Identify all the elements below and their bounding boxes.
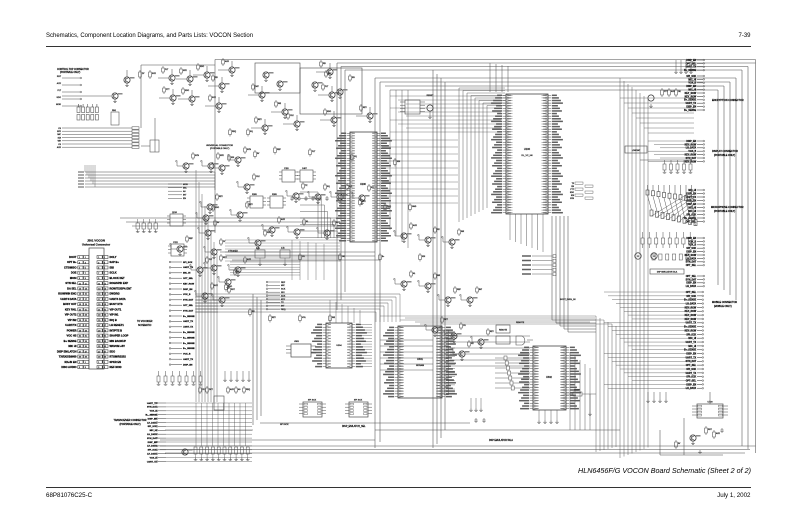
svg-text:VOX_B: VOX_B [183, 354, 191, 356]
svg-text:MIC: MIC [281, 285, 285, 287]
svg-text:MIC: MIC [183, 187, 187, 189]
svg-text:DL_VC_H4: DL_VC_H4 [521, 155, 533, 157]
svg-text:DISP_EN: DISP_EN [686, 86, 696, 88]
svg-text:OPT_SEL: OPT_SEL [686, 380, 697, 382]
svg-text:(PORTABLE ONLY): (PORTABLE ONLY) [714, 154, 735, 157]
svg-text:B+_SENSE: B+_SENSE [183, 348, 195, 350]
svg-text:TX: TX [572, 183, 575, 185]
svg-text:SBI: SBI [110, 265, 115, 269]
svg-text:R205: R205 [272, 194, 278, 196]
svg-text:TX: TX [305, 185, 308, 187]
svg-text:AUX: AUX [281, 218, 286, 221]
svg-text:SDO: SDO [56, 97, 61, 99]
svg-text:BLOCK DET: BLOCK DET [110, 276, 126, 280]
svg-text:KEY: KEY [363, 107, 368, 109]
svg-text:DA SEL: DA SEL [67, 286, 77, 290]
svg-text:UART_TX: UART_TX [183, 358, 194, 361]
svg-text:TRANSCEIVER CONNECTOR: TRANSCEIVER CONNECTOR [113, 419, 146, 422]
svg-text:MOBILE CONNECTOR: MOBILE CONNECTOR [712, 301, 737, 304]
svg-text:UART_TX: UART_TX [686, 341, 697, 344]
svg-text:RST: RST [57, 76, 62, 78]
svg-text:B+ SENSE: B+ SENSE [64, 339, 77, 343]
svg-text:LH_DATA: LH_DATA [686, 257, 697, 260]
svg-text:DISP_EN: DISP_EN [183, 289, 193, 291]
svg-text:KEY FAIL: KEY FAIL [65, 307, 77, 311]
svg-text:A1: A1 [413, 272, 415, 275]
svg-text:SPI SCK: SPI SCK [280, 424, 289, 426]
svg-text:RX+IN EN: RX+IN EN [64, 360, 76, 364]
svg-text:LH_DATA: LH_DATA [686, 147, 697, 150]
svg-text:UART_TX: UART_TX [183, 266, 194, 269]
svg-text:AUX: AUX [225, 60, 230, 63]
svg-text:EN: EN [352, 77, 355, 79]
svg-text:D7: D7 [142, 73, 144, 75]
svg-text:ACK: ACK [214, 284, 219, 287]
svg-text:OPT_SEL: OPT_SEL [686, 265, 697, 267]
svg-text:ROG/SPID EXP: ROG/SPID EXP [110, 281, 129, 285]
svg-text:CLK: CLK [256, 176, 260, 178]
svg-text:SDI: SDI [397, 161, 401, 163]
svg-text:RD: RD [215, 77, 218, 79]
svg-text:ROW/WIN ENC: ROW/WIN ENC [58, 292, 76, 296]
svg-text:Universal Connector: Universal Connector [82, 243, 111, 247]
svg-text:FLT: FLT [57, 90, 61, 92]
svg-text:MIC_HI: MIC_HI [688, 90, 696, 92]
svg-text:UART_TX: UART_TX [686, 372, 697, 375]
svg-text:DSP EMULATOR 50LA: DSP EMULATOR 50LA [489, 439, 513, 442]
svg-text:(PORTABLE ONLY): (PORTABLE ONLY) [60, 71, 81, 74]
svg-text:SYN: SYN [570, 198, 575, 200]
svg-text:R205: R205 [252, 194, 258, 196]
svg-text:B+_SENSE: B+_SENSE [183, 337, 195, 339]
svg-text:SYN_DAT: SYN_DAT [686, 278, 697, 281]
svg-text:(PORTABLE ONLY): (PORTABLE ONLY) [714, 210, 735, 213]
svg-text:TX/RX/SB9600: TX/RX/SB9600 [59, 355, 77, 359]
svg-text:VIP IN2: VIP IN2 [68, 318, 77, 322]
svg-text:SHAPER LOOP: SHAPER LOOP [110, 334, 129, 338]
svg-text:FLT: FLT [325, 86, 329, 88]
svg-text:VIP OUT2: VIP OUT2 [65, 313, 77, 317]
svg-text:KEY_ROW: KEY_ROW [685, 93, 697, 95]
svg-text:B+: B+ [382, 256, 385, 258]
svg-text:DISP_EN: DISP_EN [686, 60, 696, 62]
svg-text:VOL: VOL [302, 317, 306, 319]
svg-text:SPK: SPK [183, 70, 188, 72]
svg-text:B+_SENSE: B+_SENSE [684, 110, 697, 112]
svg-text:B+_SENSE: B+_SENSE [183, 316, 195, 318]
svg-text:A0: A0 [183, 190, 186, 193]
svg-text:SDO: SDO [327, 111, 332, 113]
svg-text:DSP SIMULATOR 50LA: DSP SIMULATOR 50LA [657, 271, 678, 274]
svg-text:UART_TX: UART_TX [686, 322, 697, 325]
svg-text:SPI_SCK: SPI_SCK [686, 248, 696, 250]
svg-text:SDI: SDI [281, 292, 285, 294]
svg-text:B+_SENSE: B+_SENSE [146, 415, 158, 417]
svg-text:RX: RX [437, 229, 440, 231]
svg-text:LH_DATA: LH_DATA [147, 445, 157, 448]
svg-text:SDO: SDO [228, 286, 233, 288]
svg-text:PTT: PTT [570, 189, 574, 191]
svg-text:UART4 DATA: UART4 DATA [110, 297, 126, 301]
svg-text:U301: U301 [417, 358, 423, 361]
svg-text:SYN_DAT: SYN_DAT [686, 360, 697, 363]
svg-text:CS: CS [58, 144, 61, 146]
svg-text:SYN_DAT: SYN_DAT [183, 299, 194, 302]
svg-text:SPI SCK: SPI SCK [354, 400, 363, 402]
svg-text:WR: WR [437, 275, 441, 277]
svg-text:UART_TX: UART_TX [183, 320, 194, 323]
svg-text:SPI SCK: SPI SCK [308, 400, 317, 402]
svg-text:SCK: SCK [152, 73, 157, 75]
svg-text:DISP_EN: DISP_EN [686, 238, 696, 240]
svg-text:SDO: SDO [185, 90, 190, 92]
svg-text:5V: 5V [257, 153, 260, 155]
svg-text:RN1: RN1 [112, 110, 117, 112]
svg-text:RD: RD [323, 63, 326, 65]
svg-text:KEY: KEY [258, 119, 263, 121]
svg-text:U700: U700 [708, 402, 714, 404]
svg-text:U303: U303 [294, 341, 300, 343]
svg-text:MOSI: MOSI [70, 276, 77, 280]
svg-text:VIP OUT1: VIP OUT1 [110, 307, 122, 311]
svg-text:SYN_DAT: SYN_DAT [686, 157, 697, 160]
svg-text:KEY_ROW: KEY_ROW [685, 144, 697, 146]
svg-text:ACK: ACK [413, 224, 418, 227]
svg-text:VOX_B: VOX_B [688, 245, 696, 247]
svg-text:LH RESET1: LH RESET1 [110, 323, 125, 327]
svg-text:SDI: SDI [58, 137, 62, 139]
svg-text:SDI: SDI [571, 195, 575, 197]
svg-text:DISP EN/LATCH: DISP EN/LATCH [57, 349, 77, 353]
svg-text:SDRAM: SDRAM [416, 364, 424, 367]
svg-text:B+_SENSE: B+_SENSE [183, 343, 195, 345]
svg-text:OPT_SEL: OPT_SEL [183, 305, 194, 307]
svg-text:REF: REF [189, 238, 194, 240]
svg-text:WAVOM +5V: WAVOM +5V [110, 344, 126, 348]
svg-text:VOX_B: VOX_B [688, 83, 696, 85]
svg-text:SPI_SCK: SPI_SCK [148, 426, 158, 428]
svg-text:C115: C115 [284, 168, 290, 170]
svg-text:DOUT: DOUT [69, 255, 77, 259]
svg-text:DOE: DOE [71, 271, 77, 275]
svg-text:DOLY: DOLY [110, 255, 117, 259]
svg-text:UNIVERSAL CONNECTOR: UNIVERSAL CONNECTOR [206, 144, 233, 147]
svg-text:UART4 DATA: UART4 DATA [60, 297, 76, 301]
svg-text:B+_SENSE: B+_SENSE [183, 332, 195, 334]
svg-text:DISP_EN: DISP_EN [686, 252, 696, 254]
svg-text:REF: REF [457, 289, 462, 291]
svg-text:UART_TX: UART_TX [147, 460, 158, 463]
svg-text:A: A [653, 255, 655, 258]
svg-text:RESET: RESET [427, 95, 434, 97]
svg-text:UART_TX: UART_TX [183, 326, 194, 329]
svg-text:LOW BAT: LOW BAT [632, 149, 641, 152]
svg-text:3V: 3V [678, 443, 681, 445]
svg-text:OPT_SEL: OPT_SEL [686, 276, 697, 278]
svg-text:C407: C407 [302, 168, 308, 170]
svg-text:D7: D7 [223, 241, 225, 243]
svg-text:AUX: AUX [281, 294, 286, 297]
svg-text:SYN_DAT: SYN_DAT [183, 309, 194, 312]
svg-text:U100: U100 [524, 147, 531, 151]
svg-text:VOC HS: VOC HS [67, 334, 77, 338]
svg-text:CS: CS [58, 128, 61, 130]
svg-text:OE: OE [678, 91, 681, 93]
svg-text:BUSY RTS: BUSY RTS [110, 302, 123, 306]
svg-text:A1: A1 [306, 220, 308, 223]
svg-text:KEY_ROW: KEY_ROW [685, 255, 697, 257]
svg-text:SYN_DAT: SYN_DAT [686, 261, 697, 264]
svg-text:TO VOCODER: TO VOCODER [137, 321, 153, 323]
svg-text:REMOTE: REMOTE [516, 322, 525, 324]
svg-text:ACK: ACK [716, 432, 721, 435]
svg-text:VOX_B: VOX_B [183, 294, 191, 296]
svg-text:LH_DATA: LH_DATA [147, 421, 157, 424]
svg-text:INT: INT [479, 289, 483, 291]
svg-text:SYN: SYN [247, 149, 252, 151]
svg-text:BOOT_DATA_1N: BOOT_DATA_1N [560, 298, 576, 301]
svg-text:OPT B+: OPT B+ [67, 260, 77, 264]
svg-text:MIS BACKUP: MIS BACKUP [110, 339, 127, 343]
svg-text:OPT_SEL: OPT_SEL [183, 278, 194, 280]
svg-text:CONTROL TOP CONNECTOR: CONTROL TOP CONNECTOR [57, 69, 89, 71]
svg-text:SCLK: SCLK [110, 271, 117, 275]
svg-text:REMOTE: REMOTE [499, 330, 508, 332]
svg-text:SAP B+: SAP B+ [110, 260, 120, 264]
svg-text:DISPLAY CONNECTOR: DISPLAY CONNECTOR [712, 150, 738, 153]
svg-text:MICROPHONE CONNECTOR: MICROPHONE CONNECTOR [711, 206, 744, 209]
svg-text:SCHEMATIC: SCHEMATIC [138, 324, 152, 327]
svg-text:ACK: ACK [230, 388, 235, 391]
svg-text:DAT: DAT [255, 85, 259, 88]
svg-text:SDO: SDO [200, 66, 205, 68]
svg-text:ACK: ACK [57, 82, 62, 85]
svg-text:DISP_EN: DISP_EN [148, 418, 158, 420]
svg-text:SYN SEL: SYN SEL [65, 281, 77, 285]
svg-text:VIP IN1: VIP IN1 [110, 313, 119, 317]
svg-text:B+_SENSE: B+_SENSE [684, 100, 697, 102]
svg-text:SDI: SDI [422, 256, 426, 258]
svg-text:LH_DATA: LH_DATA [147, 453, 157, 456]
svg-text:SPI_SCK: SPI_SCK [148, 450, 158, 452]
svg-text:SDO: SDO [110, 349, 116, 353]
svg-text:KEY_ROW: KEY_ROW [685, 161, 697, 163]
svg-text:MIC HI: MIC HI [68, 344, 76, 348]
svg-text:AUX: AUX [57, 146, 62, 149]
svg-text:EN: EN [571, 186, 574, 188]
svg-text:ENCRYPTION CONNECTOR: ENCRYPTION CONNECTOR [712, 99, 744, 102]
svg-text:MIC_HI: MIC_HI [688, 79, 696, 81]
svg-text:MOD: MOD [183, 184, 188, 186]
svg-text:RTGM/RS232: RTGM/RS232 [110, 355, 127, 359]
svg-text:SDI: SDI [231, 157, 235, 159]
svg-text:REF: REF [277, 149, 282, 151]
svg-text:CR300: CR300 [574, 390, 580, 392]
svg-text:KEY: KEY [281, 299, 286, 301]
svg-text:UART_TX: UART_TX [147, 402, 158, 405]
svg-text:GND: GND [412, 206, 417, 208]
svg-text:UART_TX: UART_TX [686, 102, 697, 105]
svg-text:DISP_EN: DISP_EN [686, 107, 696, 109]
svg-text:INT/PTE B: INT/PTE B [110, 328, 123, 332]
svg-text:SPI_SCK: SPI_SCK [686, 76, 696, 78]
svg-text:KEY: KEY [219, 196, 224, 198]
svg-text:SCK: SCK [212, 97, 217, 99]
svg-text:KEY: KEY [490, 331, 495, 333]
svg-text:KEY_ROW: KEY_ROW [685, 96, 697, 98]
svg-text:FLT: FLT [312, 151, 316, 153]
svg-text:BSY: BSY [362, 201, 367, 203]
svg-text:VOX_B: VOX_B [688, 241, 696, 243]
svg-text:DISC AUDIO: DISC AUDIO [61, 365, 76, 369]
svg-text:DISP_EN: DISP_EN [686, 283, 696, 285]
svg-text:CTS/MISO: CTS/MISO [64, 265, 77, 269]
svg-text:REF MOD: REF MOD [110, 365, 122, 369]
svg-text:WE: WE [332, 317, 336, 319]
svg-text:BUSY OUT: BUSY OUT [63, 302, 77, 306]
svg-text:Q210: Q210 [172, 212, 178, 214]
svg-text:VOX_B: VOX_B [688, 151, 696, 153]
svg-text:SCK: SCK [281, 289, 286, 291]
svg-text:RX: RX [471, 343, 474, 345]
svg-text:SQ: SQ [327, 186, 330, 188]
svg-text:LH_DATA: LH_DATA [686, 387, 697, 390]
svg-text:KEY_ROW: KEY_ROW [183, 283, 195, 285]
svg-text:SDO: SDO [570, 192, 575, 194]
svg-text:SPK: SPK [57, 131, 62, 133]
svg-text:AUX: AUX [247, 258, 252, 261]
svg-text:DISP_EN/LATCH_SEL: DISP_EN/LATCH_SEL [342, 425, 366, 428]
svg-text:DWDRG: DWDRG [110, 292, 120, 296]
svg-text:ROW/TX/SPA ENT: ROW/TX/SPA ENT [110, 286, 132, 290]
svg-text:IRQ B: IRQ B [110, 318, 117, 322]
svg-text:(MOBILE ONLY): (MOBILE ONLY) [714, 305, 732, 308]
svg-text:1.5k: 1.5k [256, 248, 260, 250]
svg-text:(PORTABLE ONLY): (PORTABLE ONLY) [119, 423, 140, 426]
svg-text:SPK: SPK [220, 155, 225, 157]
svg-text:REF: REF [281, 282, 286, 284]
svg-text:INT: INT [183, 195, 187, 197]
svg-text:SYN: SYN [195, 155, 200, 157]
svg-text:SQ: SQ [250, 131, 253, 133]
svg-text:(PORTABLE ONLY): (PORTABLE ONLY) [210, 147, 230, 150]
svg-text:REQ: REQ [281, 309, 286, 311]
svg-text:MIC_HI: MIC_HI [183, 273, 191, 275]
svg-text:WE: WE [278, 103, 282, 105]
svg-text:CS: CS [463, 325, 466, 327]
svg-text:A0: A0 [238, 388, 240, 391]
svg-text:LH_DATA: LH_DATA [686, 302, 697, 305]
svg-text:PTT: PTT [166, 89, 170, 91]
svg-text:POWER: POWER [67, 328, 77, 332]
svg-text:SPI_SCK: SPI_SCK [686, 214, 696, 216]
svg-text:EN: EN [183, 198, 186, 200]
svg-text:REQ: REQ [232, 131, 237, 133]
svg-text:OPT_SEL: OPT_SEL [686, 63, 697, 65]
svg-text:LH_DATA: LH_DATA [147, 433, 157, 436]
svg-text:WR: WR [461, 231, 465, 233]
svg-text:RST: RST [708, 429, 713, 431]
svg-text:1.5k: 1.5k [281, 248, 285, 250]
svg-text:U304: U304 [336, 345, 342, 347]
svg-text:SPI_SCK: SPI_SCK [183, 262, 193, 264]
svg-text:DET: DET [209, 389, 214, 391]
svg-text:FLT: FLT [165, 69, 169, 71]
svg-text:WR: WR [58, 141, 62, 143]
svg-text:MOD: MOD [56, 104, 61, 106]
svg-text:DISP_EN: DISP_EN [183, 364, 193, 366]
svg-text:UART/TX: UART/TX [65, 323, 77, 327]
svg-text:U200: U200 [360, 183, 366, 186]
svg-text:C222: C222 [173, 242, 179, 244]
svg-text:SPKR EN: SPKR EN [110, 360, 122, 364]
svg-text:CS: CS [302, 256, 305, 258]
svg-text:MIC: MIC [57, 134, 61, 136]
svg-text:3V: 3V [217, 222, 220, 224]
svg-text:REQ: REQ [246, 389, 251, 391]
svg-text:U302: U302 [546, 376, 552, 379]
svg-text:A: A [637, 255, 639, 258]
svg-text:LH_DATA: LH_DATA [686, 285, 697, 288]
svg-text:RST: RST [231, 289, 236, 291]
svg-text:SDO: SDO [215, 207, 220, 209]
svg-text:KEY: KEY [272, 317, 277, 319]
svg-text:UART_TX: UART_TX [686, 356, 697, 359]
svg-text:CLK: CLK [290, 115, 294, 117]
svg-text:DISP_EN: DISP_EN [148, 442, 158, 444]
